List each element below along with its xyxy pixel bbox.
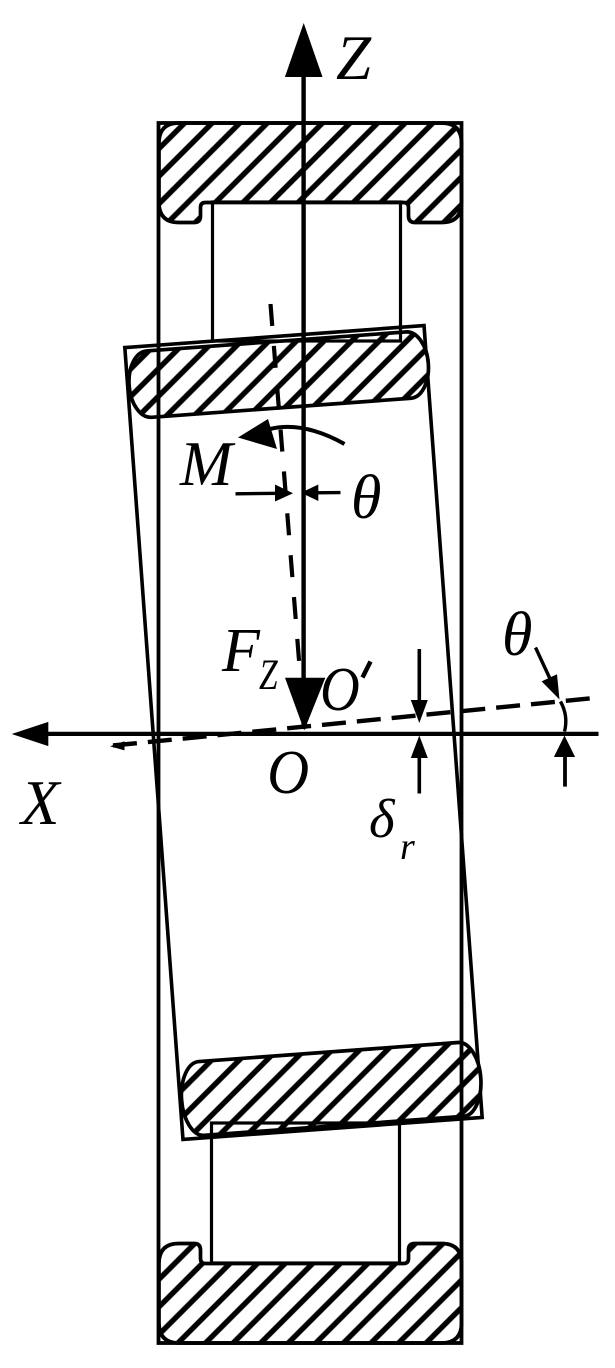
theta leader arrow xyxy=(536,648,553,684)
Z axis arrowhead xyxy=(285,23,323,77)
svg-text:δ: δ xyxy=(369,788,396,849)
theta angle arrow left xyxy=(236,492,281,496)
svg-text:F: F xyxy=(221,617,261,685)
theta angle arc right xyxy=(561,702,566,732)
X axis line xyxy=(40,732,599,736)
inner ring body (tilted rectangle) xyxy=(125,326,482,1140)
small arrowhead at left end of X' axis xyxy=(110,741,125,750)
outer ring bottom cross-section (hatched cup shape) xyxy=(159,1244,462,1344)
moment M arc xyxy=(270,427,345,444)
top roller xyxy=(213,202,401,341)
inner ring bottom cross-section (hatched) xyxy=(179,1041,484,1137)
svg-text:O: O xyxy=(267,738,309,808)
svg-text:O: O xyxy=(320,653,360,723)
force Fz arrow xyxy=(285,678,325,731)
outer ring top cross-section (hatched hat shape) xyxy=(159,123,462,223)
Z axis line xyxy=(301,70,305,729)
svg-text:Z: Z xyxy=(259,652,278,699)
inner ring top cross-section (hatched) xyxy=(127,330,431,418)
tilted Z' dashed axis xyxy=(271,304,305,725)
theta up arrow below X axis xyxy=(563,755,567,787)
svg-text:r: r xyxy=(400,826,415,868)
prime mark of O' xyxy=(363,662,371,678)
tilted X' dashed axis xyxy=(113,698,600,746)
X axis arrowhead xyxy=(12,722,49,746)
svg-text:θ: θ xyxy=(351,464,381,532)
svg-text:X: X xyxy=(18,768,62,838)
svg-text:θ: θ xyxy=(502,601,532,669)
bearing outer boundary rectangle xyxy=(159,123,462,1343)
tilted inner ring / shaft assembly xyxy=(125,325,484,1139)
theta angle arrow right xyxy=(312,491,341,495)
bottom roller xyxy=(212,1123,400,1263)
svg-text:Z: Z xyxy=(336,23,372,93)
radial displacement arrow lower xyxy=(417,757,421,794)
svg-text:M: M xyxy=(179,429,236,499)
radial displacement arrow upper xyxy=(417,649,421,705)
moment M arrowhead xyxy=(238,419,277,449)
